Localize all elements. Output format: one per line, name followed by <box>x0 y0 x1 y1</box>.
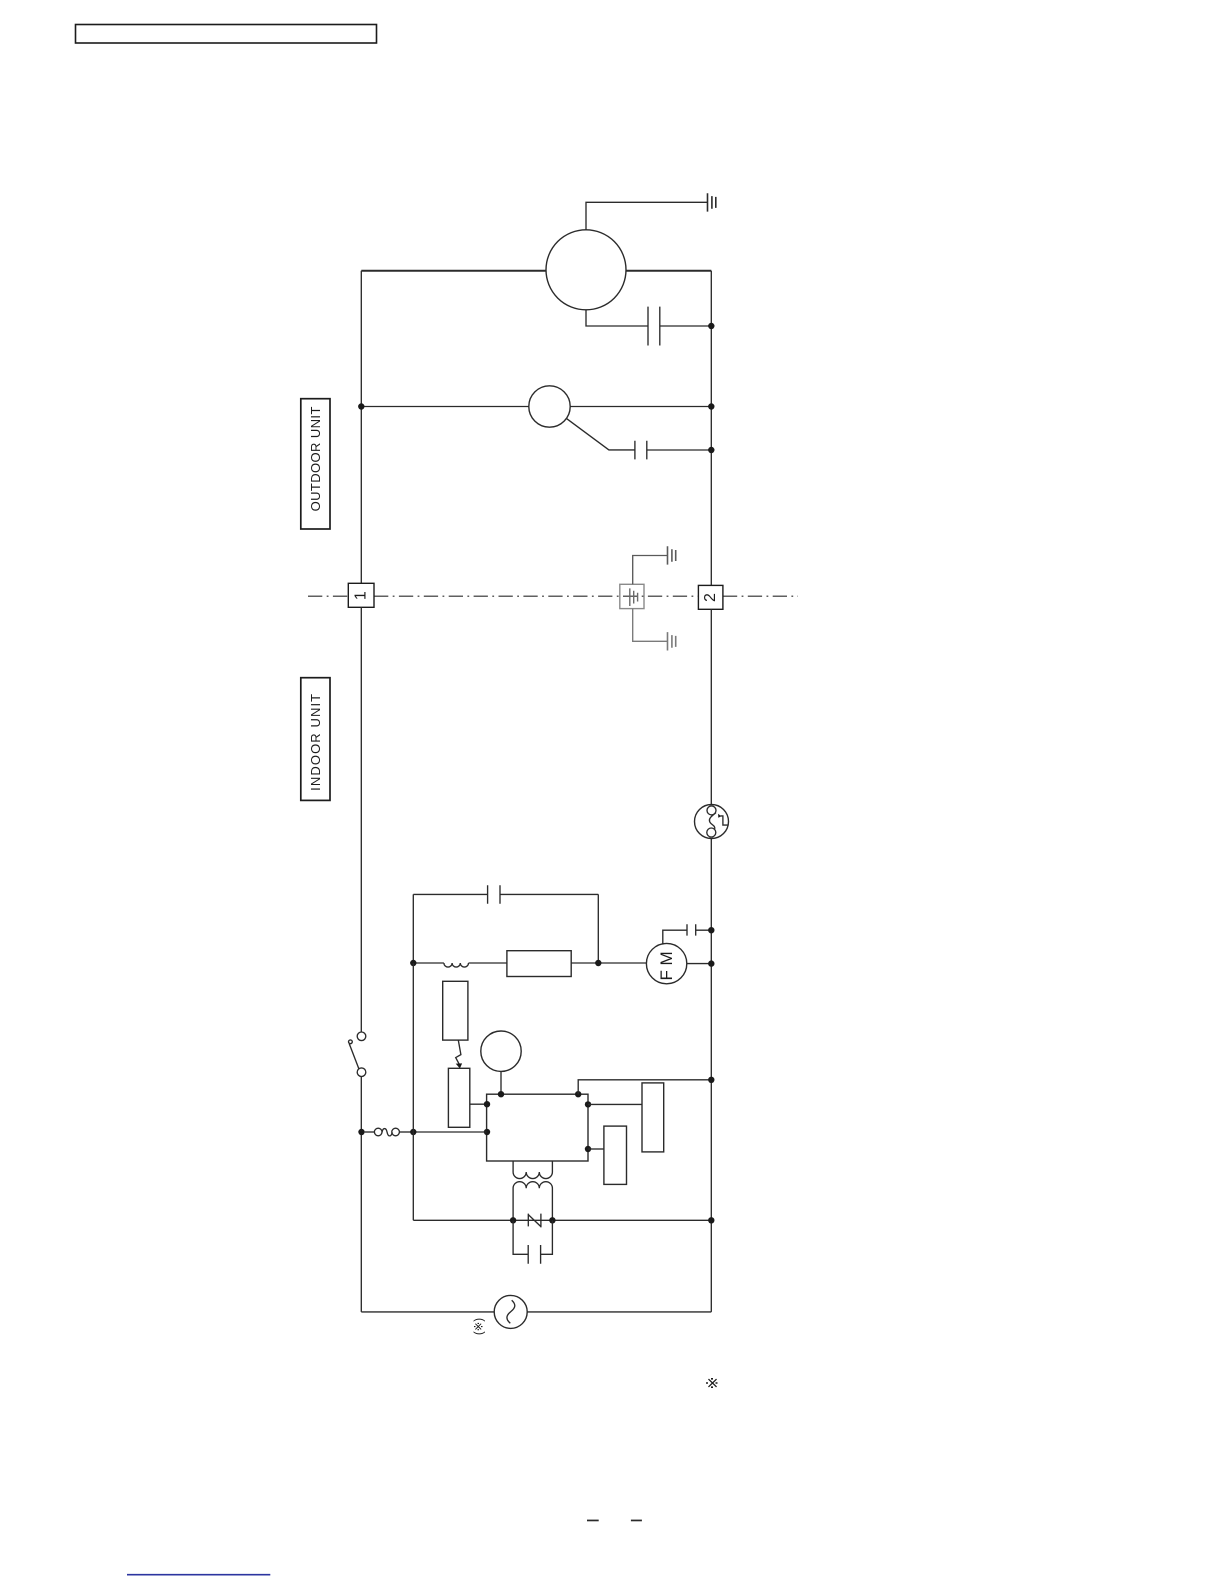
wire indoor left vertical <box>360 607 362 1032</box>
footer blue rule <box>127 1574 270 1576</box>
wire center vertical <box>412 963 414 1220</box>
svg-text:FM: FM <box>657 947 676 981</box>
node dot <box>708 927 714 933</box>
AC source <box>494 1295 527 1328</box>
wire TH2 to control board <box>470 1103 487 1105</box>
wire bottom horizontal <box>413 1219 711 1221</box>
resistor R3 <box>604 1126 627 1184</box>
capacitor C4 loop <box>413 885 598 904</box>
wire CM top to ground <box>586 202 708 230</box>
wire surge box to upper ground <box>633 556 668 585</box>
wire buzzer to board <box>500 1071 502 1094</box>
inductor L1 <box>444 963 469 967</box>
node dot row mid <box>595 960 601 966</box>
node dots secondary <box>510 1217 516 1223</box>
wire bottom feed <box>361 1311 711 1313</box>
capacitor C5 <box>513 1220 552 1263</box>
capacitor C3 (fan motor) <box>663 924 712 944</box>
svg-text:INDOOR UNIT: INDOOR UNIT <box>308 693 323 791</box>
svg-text:(※): (※) <box>474 1318 486 1335</box>
transformer T1 secondary <box>513 1182 552 1221</box>
terminal 2 <box>698 585 723 609</box>
wire board right pin 1 <box>588 1103 642 1105</box>
node dot <box>708 447 714 453</box>
title box <box>76 25 377 44</box>
wire FM to right vertical <box>687 963 712 965</box>
pin dots <box>498 1091 504 1097</box>
surge absorber box <box>620 584 644 608</box>
ground E2 <box>668 546 676 564</box>
wire through protector <box>361 406 711 408</box>
thermistor TH1 <box>443 981 468 1040</box>
svg-text:OUTDOOR UNIT: OUTDOOR UNIT <box>308 406 323 511</box>
surge arrester (gap) <box>528 1214 541 1228</box>
wire compressor feed (thick) <box>361 270 711 272</box>
page number dashes <box>587 1520 599 1522</box>
fuse F1 <box>358 1128 413 1136</box>
wire main indoor row <box>413 962 646 964</box>
node dot left <box>358 403 364 409</box>
indoor fan motor FM <box>646 943 686 983</box>
wire right indoor vertical lower <box>710 838 712 1312</box>
wire thermostat up to terminal 2 <box>710 609 712 804</box>
thermostat <box>695 805 729 839</box>
buzzer BZ <box>481 1031 521 1071</box>
outdoor fan motor protector circle <box>529 386 570 427</box>
arrow TH1 to TH2 <box>456 1040 461 1065</box>
transformer T1 primary <box>513 1161 552 1179</box>
OUTDOOR UNIT label <box>301 399 330 529</box>
wire below switch <box>360 1077 362 1312</box>
wire loop verticals <box>413 894 598 963</box>
ground E1 <box>708 193 716 211</box>
switch SW (power) <box>349 1032 366 1076</box>
wire board top pin to right vertical <box>578 1080 711 1094</box>
control board box <box>487 1094 588 1161</box>
terminal 1 <box>348 583 374 607</box>
svg-text:1: 1 <box>353 591 370 600</box>
wire board right pin 2 <box>588 1148 604 1150</box>
compressor motor CM <box>546 230 626 310</box>
wire left main vertical (outdoor) <box>360 271 362 584</box>
capacitor C2 (outdoor fan) <box>566 418 711 459</box>
thermistor TH2 <box>448 1068 469 1127</box>
wire fuse row to board <box>413 1131 486 1133</box>
svg-text:※: ※ <box>705 1377 722 1390</box>
ground E3 <box>668 632 676 650</box>
resistor R2 <box>642 1083 664 1152</box>
wire right main vertical (outdoor) <box>710 271 712 586</box>
node dot <box>708 323 714 329</box>
capacitor C1 (compressor run) <box>586 307 711 346</box>
node dot right <box>708 403 714 409</box>
unit boundary dash-dot line <box>308 595 798 597</box>
resistor R1 <box>507 951 571 977</box>
svg-text:2: 2 <box>702 593 719 602</box>
INDOOR UNIT label <box>301 678 330 801</box>
node dot row left <box>410 960 416 966</box>
wire surge box to lower ground <box>633 609 668 642</box>
